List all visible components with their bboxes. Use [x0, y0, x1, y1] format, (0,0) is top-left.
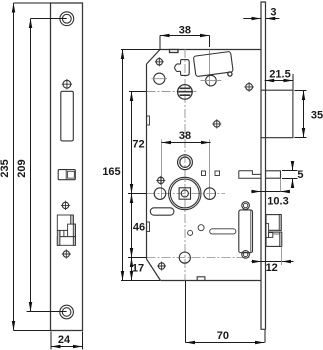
- svg-text:3: 3: [270, 7, 276, 19]
- small square hole 2: [215, 171, 220, 176]
- ext line col 161: [161, 140, 163, 200]
- side view faceplate strip: [261, 2, 266, 330]
- hole left of hub: [154, 188, 166, 200]
- small ring on tilted plate: [228, 72, 232, 76]
- svg-text:21.5: 21.5: [269, 69, 290, 81]
- screw boss B: [61, 201, 70, 210]
- dimension 209: [27, 19, 67, 312]
- screw hole top: [60, 12, 74, 26]
- svg-text:209: 209: [16, 159, 28, 177]
- stadium slot left: [150, 208, 174, 215]
- follower cam blob: [175, 60, 190, 76]
- dimension 24: [51, 332, 83, 350]
- slot right: [210, 229, 236, 234]
- small hole 2: [198, 225, 204, 231]
- deadbolt side view left bar: [239, 171, 261, 179]
- dimension 46: [128, 194, 147, 258]
- ext line col 210: [209, 50, 211, 200]
- svg-text:70: 70: [217, 330, 229, 342]
- faceplate front view: [51, 3, 83, 331]
- lock case body outline: [147, 50, 262, 281]
- dimension 21.5: [265, 74, 293, 90]
- notch on top edge: [170, 50, 179, 53]
- deadbolt side view right bar: [266, 171, 281, 178]
- svg-text:38: 38: [179, 25, 191, 37]
- latch guide hole: [179, 252, 190, 263]
- dimension 38 top: [160, 36, 210, 50]
- dimension 10.3: [251, 179, 289, 192]
- hole below: [152, 73, 168, 84]
- screw boss right: [244, 82, 254, 92]
- svg-text:165: 165: [102, 166, 120, 178]
- bottom tab: [197, 277, 205, 281]
- dimension 235: [14, 3, 51, 331]
- latch head side view: [266, 215, 282, 247]
- svg-text:46: 46: [133, 222, 145, 234]
- hole right: [201, 75, 222, 86]
- faceplate tab lower: [147, 222, 150, 232]
- svg-text:24: 24: [58, 334, 71, 346]
- svg-text:17: 17: [132, 263, 144, 275]
- svg-text:5: 5: [297, 169, 303, 181]
- svg-text:72: 72: [132, 139, 144, 151]
- dimension 17: [131, 258, 133, 281]
- center line vertical main axis: [184, 49, 186, 280]
- dimension 165: [121, 50, 160, 281]
- dimension 12: [251, 246, 293, 265]
- follower hub: [169, 177, 201, 209]
- ring above hub: [178, 155, 193, 170]
- small square hole 1: [202, 171, 206, 176]
- small hole 1: [188, 230, 193, 235]
- hole right of hub: [204, 188, 216, 200]
- screw hole bottom: [60, 305, 74, 319]
- latch case side view: [239, 202, 253, 258]
- center line latch: [147, 257, 253, 259]
- dimension 5: [282, 161, 298, 188]
- dimension 38 lower: [162, 142, 211, 144]
- svg-text:12: 12: [266, 262, 278, 274]
- dimension 3: [243, 18, 279, 20]
- latch window: [61, 91, 74, 141]
- dimension 35: [294, 91, 306, 138]
- svg-text:35: 35: [311, 110, 323, 122]
- cylinder screw: [178, 85, 193, 100]
- center line cylinder: [147, 91, 197, 93]
- svg-text:10.3: 10.3: [267, 196, 288, 208]
- latch bolt front view: [57, 215, 75, 245]
- svg-text:235: 235: [0, 159, 11, 177]
- screw boss top-left: [155, 57, 164, 66]
- svg-text:38: 38: [179, 130, 191, 142]
- tilted plate: [193, 51, 233, 76]
- deadbolt slot: [58, 170, 75, 180]
- dimension 72: [128, 92, 147, 194]
- screw boss mid-right: [212, 119, 221, 128]
- screw boss mid-left: [156, 176, 165, 185]
- dimension 70: [186, 281, 266, 343]
- center line hub: [147, 193, 226, 195]
- screw boss C: [62, 249, 71, 258]
- screw boss A: [62, 79, 72, 89]
- faceplate tab upper: [147, 116, 150, 125]
- cylinder housing side view: [261, 90, 293, 138]
- screw boss bottom-left: [157, 262, 166, 271]
